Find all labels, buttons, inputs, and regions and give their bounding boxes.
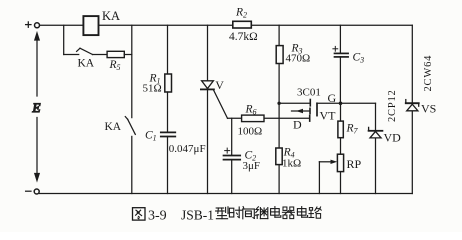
zener diode VS: [406, 100, 419, 111]
svg-text:3μF: 3μF: [243, 160, 261, 172]
wire C2 branch upper: [231, 118, 233, 155]
caption hanzi lu: [309, 207, 321, 218]
wire C3 branch lower: [339, 57, 341, 103]
wire R1 branch upper: [167, 25, 169, 74]
caption hanzi qi: [282, 207, 294, 219]
svg-text:0.047μF: 0.047μF: [169, 143, 206, 155]
wire top rail: [40, 24, 413, 26]
svg-text:KA: KA: [102, 9, 120, 23]
svg-text:3C01: 3C01: [297, 87, 321, 99]
svg-text:1kΩ: 1kΩ: [282, 157, 301, 169]
svg-text:R2: R2: [235, 7, 247, 20]
transistor VT 3C01: [279, 100, 317, 122]
capacitor C3: [335, 53, 349, 57]
potentiometer RP: [337, 154, 343, 171]
wire R1 to C1: [167, 92, 169, 132]
svg-text:3-9: 3-9: [148, 209, 167, 224]
svg-text:C1: C1: [145, 130, 157, 143]
wire stub to contact row: [63, 25, 65, 54]
svg-text:KA: KA: [105, 121, 122, 133]
resistor R7: [338, 121, 343, 138]
resistor R1: [165, 74, 172, 92]
switch KA contact (upper): [77, 48, 93, 54]
terminal +: [26, 22, 40, 28]
capacitor C1: [161, 132, 176, 136]
wire right edge: [411, 25, 413, 193]
label C3 plus: [333, 46, 338, 51]
wire D line: [228, 117, 310, 119]
svg-text:2CP12: 2CP12: [387, 89, 398, 122]
caption hanzi dian2: [297, 207, 307, 218]
wire branch KA-switch upper: [131, 25, 133, 117]
svg-text:V: V: [215, 78, 224, 92]
svg-text:VS: VS: [421, 102, 436, 116]
wire contact row left: [64, 54, 79, 56]
wire VD branch: [375, 103, 377, 193]
node G junction: [339, 102, 343, 106]
wire thyristor branch: [207, 25, 209, 193]
capacitor C2: [224, 156, 241, 160]
diode VD: [369, 127, 383, 137]
thyristor V: [201, 81, 214, 90]
wire R3 R4 branch: [278, 25, 280, 193]
wire bottom rail: [39, 193, 412, 195]
wire R5 to branch: [124, 54, 132, 56]
svg-text:VD: VD: [384, 131, 402, 145]
node S junction: [277, 102, 280, 105]
caption hanzi tu: [133, 208, 146, 220]
resistor R2: [233, 21, 252, 28]
svg-text:E: E: [32, 100, 41, 115]
resistor R3: [276, 46, 283, 64]
resistor R5: [107, 51, 124, 57]
svg-text:C3: C3: [353, 52, 365, 65]
svg-text:KA: KA: [78, 58, 95, 70]
caption hanzi dian1: [271, 207, 281, 218]
wire C1 lower: [167, 137, 169, 194]
svg-text:R5: R5: [109, 59, 121, 72]
svg-text:100Ω: 100Ω: [238, 126, 263, 138]
svg-text:RP: RP: [347, 157, 362, 171]
caption hanzi jian: [243, 207, 255, 219]
resistor R6: [242, 115, 264, 122]
wire branch KA-switch lower: [131, 136, 133, 193]
switch KA (lower): [125, 117, 135, 135]
wire gate to node G: [317, 102, 376, 104]
wire R7 branch: [340, 103, 342, 193]
source E arrow: [35, 33, 39, 181]
wire gate diagonal: [214, 90, 228, 118]
svg-text:R7: R7: [346, 123, 359, 136]
caption hanzi ji: [256, 207, 268, 219]
resistor R4: [276, 148, 282, 165]
wire C2 branch lower: [231, 160, 233, 194]
caption hanzi shi: [229, 207, 241, 218]
svg-text:51Ω: 51Ω: [143, 83, 162, 95]
wire contact to R5: [93, 54, 108, 56]
label C2 plus: [225, 148, 230, 153]
wire RP wiper arrow: [319, 160, 337, 194]
svg-text:470Ω: 470Ω: [286, 53, 311, 65]
svg-text:R6: R6: [245, 104, 257, 117]
relay coil KA: [83, 16, 98, 35]
svg-text:D: D: [293, 118, 302, 132]
svg-text:JSB-1: JSB-1: [181, 208, 214, 223]
svg-text:2CW64: 2CW64: [423, 55, 434, 92]
wire C3 branch upper: [339, 25, 341, 53]
terminal -: [26, 189, 40, 194]
svg-text:VT: VT: [320, 109, 337, 123]
caption hanzi xing: [216, 207, 228, 219]
svg-text:4.7kΩ: 4.7kΩ: [229, 31, 258, 43]
